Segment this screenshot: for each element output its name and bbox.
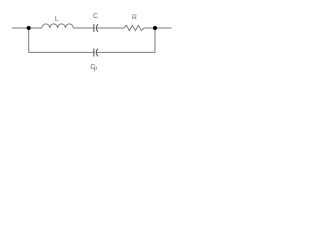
wire: capacitor C to resistor R xyxy=(96,27,124,29)
svg-text:R: R xyxy=(132,15,137,22)
svg-text:C: C xyxy=(93,13,98,20)
capacitor Cp left plate xyxy=(93,49,95,57)
wire: right vertical drop xyxy=(154,28,156,52)
inductor L xyxy=(42,24,73,28)
capacitor C left plate xyxy=(93,24,95,32)
capacitor C curved plate xyxy=(96,24,98,32)
node: left junction dot xyxy=(27,26,31,30)
wire: top rail left segment xyxy=(12,27,42,29)
resistor R xyxy=(124,25,144,30)
node: right junction dot xyxy=(153,26,157,30)
svg-text:L: L xyxy=(55,16,59,23)
wire: left vertical drop xyxy=(28,28,30,52)
wire: inductor to capacitor C xyxy=(73,27,94,29)
wire: bottom rail left segment xyxy=(29,51,94,53)
wire: bottom rail right segment xyxy=(96,51,155,53)
svg-text:p: p xyxy=(94,66,98,72)
wire: resistor to top-right end xyxy=(144,27,172,29)
capacitor Cp curved plate xyxy=(96,49,98,57)
